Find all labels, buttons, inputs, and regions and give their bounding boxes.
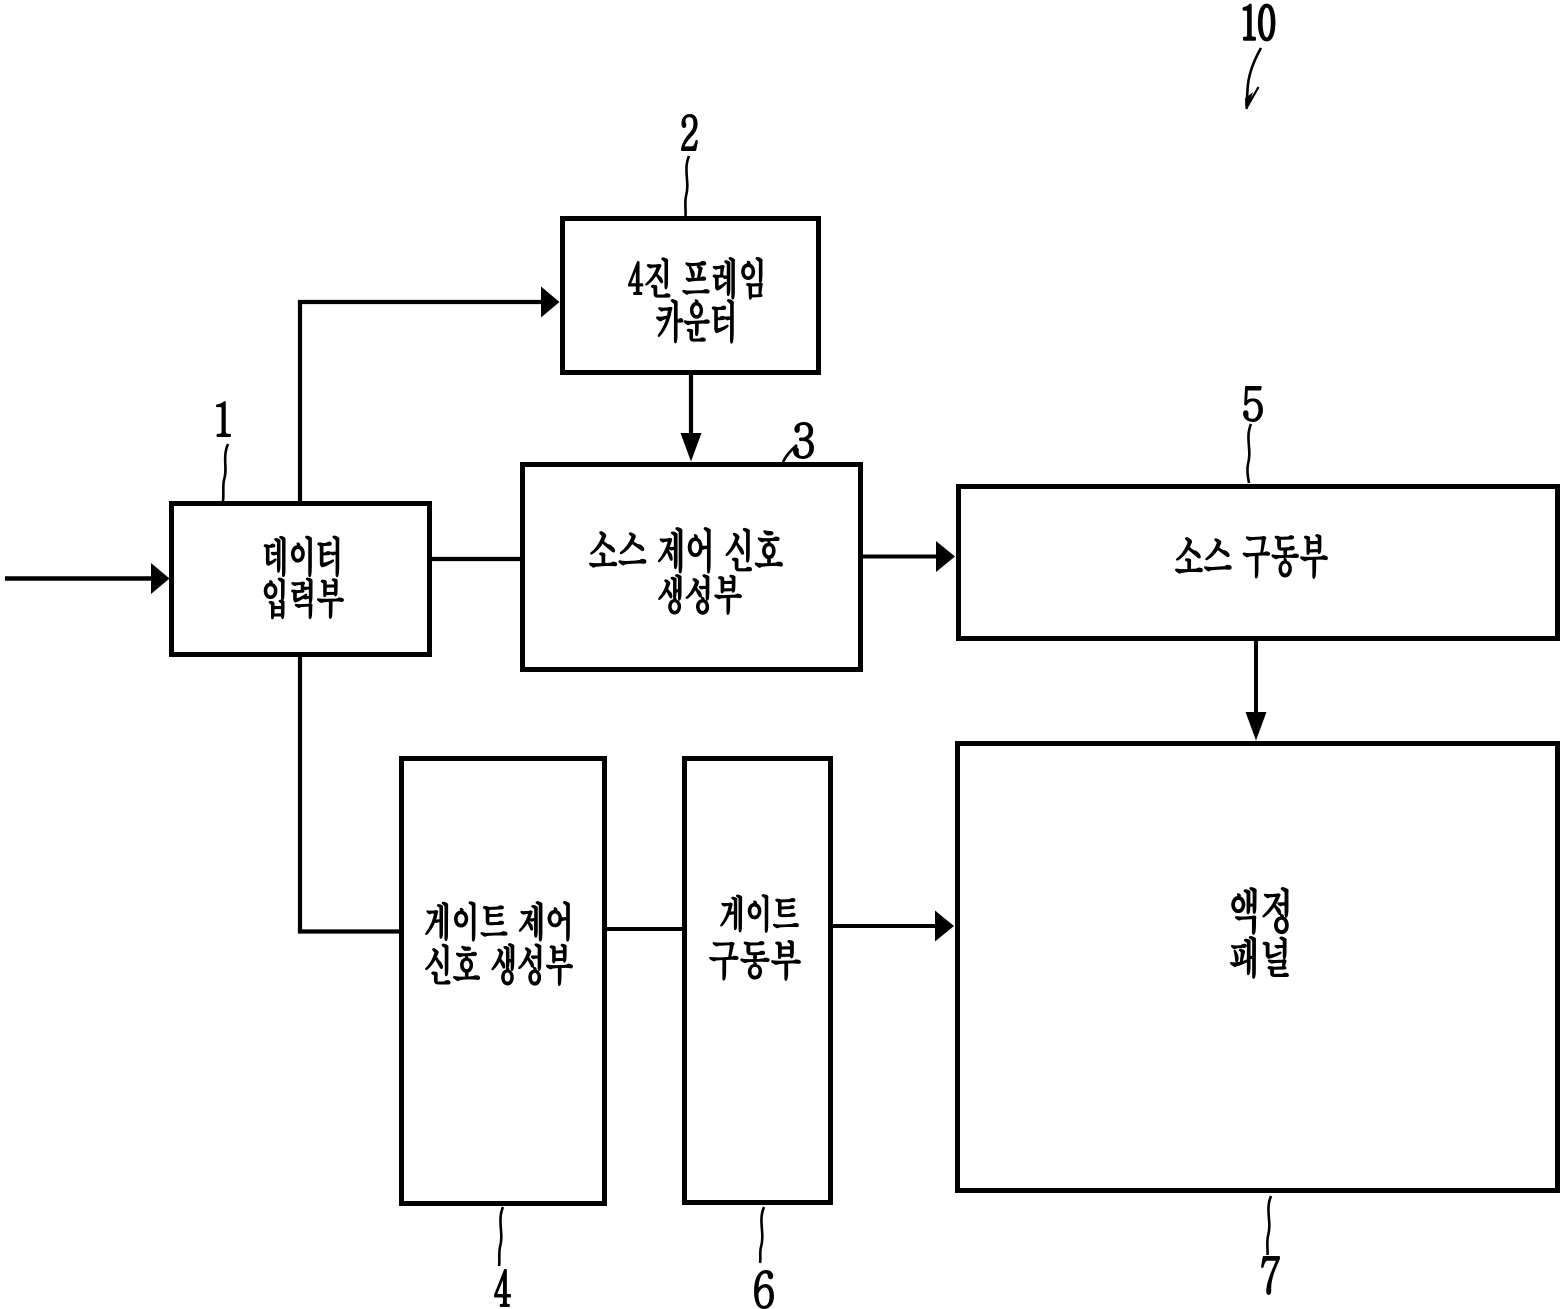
wire: box 1 bottom down to gate control signal generator (box 4) <box>300 655 399 932</box>
node 1 leader <box>217 402 230 501</box>
wire: box 3 right to source driver (box 5) <box>863 541 955 572</box>
box 2: quaternary frame counter 4진 프레임 카운터 <box>563 219 819 373</box>
box 7: LCD panel 액정 패널 <box>958 744 1558 1191</box>
box 3: source control signal generator 소스 제어 신호 생성부 <box>523 465 861 670</box>
wire: external data input into box 1 <box>5 563 170 594</box>
node 3 leader <box>783 423 813 462</box>
box 6: gate driver 게이트 구동부 <box>685 759 831 1203</box>
wire: box 2 bottom down into box 3 <box>681 375 702 462</box>
wire: box 4 right to gate driver (box 6) <box>607 927 682 931</box>
node 5 leader <box>1244 387 1262 483</box>
box 5: source driver 소스 구동부 <box>959 487 1558 639</box>
wire: box 5 bottom down to LCD panel (box 7) <box>1246 641 1267 741</box>
wire: box 1 right to source control signal generator (box 3) <box>432 557 520 561</box>
node 2 leader <box>682 115 697 216</box>
box 4: gate control signal generator 게이트 제어 신호 생성부 <box>402 759 605 1204</box>
node 10 (figure reference numeral) <box>1244 5 1274 109</box>
node 7 leader <box>1262 1196 1279 1294</box>
node 6 leader <box>755 1207 773 1308</box>
wire: box 1 top to quaternary frame counter (box 2) <box>300 287 560 504</box>
box 1: data input unit 데이터 입력부 <box>172 504 430 655</box>
wire: box 6 right into box 7 <box>833 911 954 942</box>
node 4 leader <box>495 1207 510 1306</box>
